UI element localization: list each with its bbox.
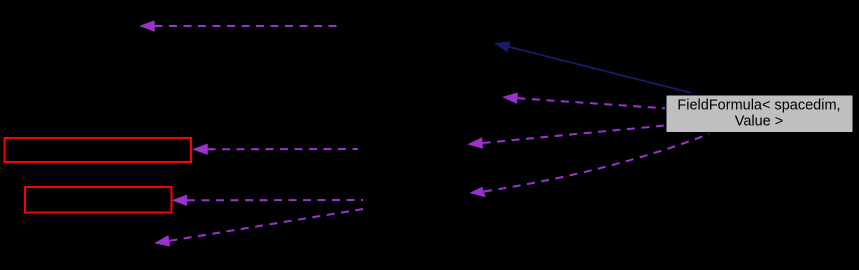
edge H (usage, dashed) <box>154 209 363 247</box>
edge B (inheritance, solid blue) <box>494 41 691 93</box>
edge C (usage, dashed) <box>502 93 665 109</box>
edge A (usage, dashed) <box>139 20 337 32</box>
node FieldFormula <box>666 95 854 133</box>
svg-text:FieldFormula< spacedim,: FieldFormula< spacedim, <box>677 98 840 114</box>
node box2 (red-bordered, truncated) <box>25 187 172 213</box>
edge F (usage, dashed) <box>172 195 364 207</box>
node box1 (red-bordered, truncated) <box>5 138 192 162</box>
edge G (usage, dashed) <box>469 134 709 197</box>
edge D (usage, dashed) <box>192 144 358 156</box>
edge E (usage, dashed) <box>467 126 664 149</box>
svg-text:Value >: Value > <box>735 114 784 130</box>
